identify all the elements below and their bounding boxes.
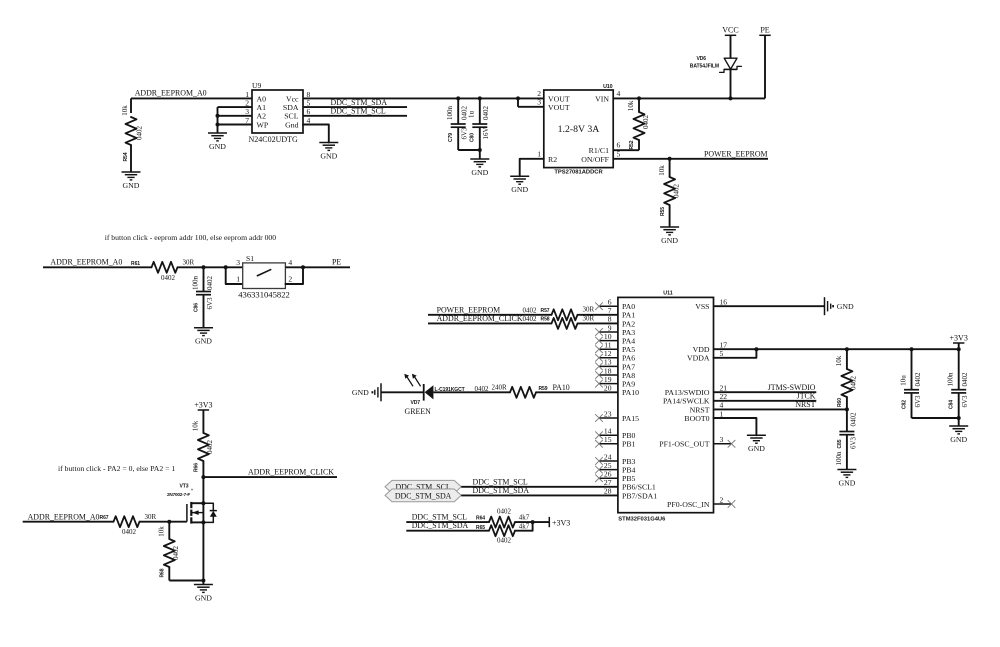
svg-text:WP: WP xyxy=(257,120,269,129)
sideways ground at VSS xyxy=(824,297,826,315)
svg-text:A2: A2 xyxy=(257,112,267,121)
resistor R68 10k 0402 gate pulldown xyxy=(168,522,170,539)
svg-text:GND: GND xyxy=(838,478,855,487)
wire ADDR_EEPROM_CLICK xyxy=(203,476,337,478)
wire flag to PB7 xyxy=(461,494,618,496)
svg-text:0402: 0402 xyxy=(172,546,180,561)
svg-text:C80: C80 xyxy=(470,133,476,142)
svg-text:S1: S1 xyxy=(246,254,254,263)
resistor R65 4k7 0402 xyxy=(489,525,515,536)
wire VDDA join xyxy=(714,349,757,358)
wire PE down to VIN rail xyxy=(764,35,766,98)
svg-text:2: 2 xyxy=(245,99,249,108)
svg-text:U9: U9 xyxy=(252,81,261,90)
svg-text:20: 20 xyxy=(604,384,612,393)
svg-text:PB1: PB1 xyxy=(622,440,636,449)
button S1 436331045822 box xyxy=(243,263,286,289)
wire PA14/SWCLK xyxy=(714,400,817,402)
resistor R55 10k 0402 pulldown xyxy=(669,159,671,177)
junction C84 top at +3V3 xyxy=(957,347,961,351)
svg-text:4k7: 4k7 xyxy=(519,514,530,522)
svg-text:2: 2 xyxy=(288,275,292,284)
svg-text:0402: 0402 xyxy=(497,508,512,516)
svg-text:6V3: 6V3 xyxy=(206,297,214,310)
svg-text:0402: 0402 xyxy=(122,528,137,536)
svg-text:0402: 0402 xyxy=(850,376,858,391)
box: MCU U11 STM32F031G4U6 xyxy=(618,297,714,512)
svg-text:GND: GND xyxy=(837,302,854,311)
svg-text:R55: R55 xyxy=(660,207,666,216)
svg-text:SCL: SCL xyxy=(284,112,299,121)
ground below C84 xyxy=(949,425,968,427)
junction C84 bottom xyxy=(957,416,961,420)
wire VDD rail to +3V3 xyxy=(714,348,959,350)
junction at S1 pin1 branch xyxy=(224,265,228,269)
svg-text:+3V3: +3V3 xyxy=(194,400,212,409)
svg-text:R61: R61 xyxy=(131,261,140,267)
svg-text:VSS: VSS xyxy=(695,302,709,311)
svg-text:Gnd: Gnd xyxy=(285,120,299,129)
power port VCC xyxy=(725,34,736,36)
svg-text:30R: 30R xyxy=(183,259,195,267)
power port PE (top right) xyxy=(759,34,770,36)
junction at R55 pulldown xyxy=(668,157,672,161)
svg-text:R64: R64 xyxy=(476,515,485,521)
svg-text:PB7/SDA1: PB7/SDA1 xyxy=(622,491,657,500)
svg-text:10k: 10k xyxy=(627,100,635,111)
resistor R60 10k 0402 NRST pullup xyxy=(846,349,848,369)
svg-text:DDC_STM_SDA: DDC_STM_SDA xyxy=(331,98,388,107)
svg-text:C82: C82 xyxy=(901,400,907,409)
resistor R66 10k 0402 pullup xyxy=(198,433,209,461)
svg-text:BOOT0: BOOT0 xyxy=(684,414,709,423)
wire R68 bottom to source node xyxy=(169,580,203,582)
svg-text:TPS27081ADDCR: TPS27081ADDCR xyxy=(554,169,603,175)
wire SDA into R65 xyxy=(406,530,489,532)
wire net ADDR_EEPROM_A0 to U9 pin 1 xyxy=(131,97,252,99)
svg-text:0402: 0402 xyxy=(914,372,922,387)
capacitor C84 100n 6V3 0402 xyxy=(958,349,960,390)
svg-text:R68: R68 xyxy=(160,568,166,577)
capacitor C80 1u 16V 0402 xyxy=(478,96,482,100)
svg-text:0402: 0402 xyxy=(523,315,538,323)
svg-text:GND: GND xyxy=(661,236,678,245)
svg-text:C86: C86 xyxy=(193,303,199,312)
ground below U9 address pins xyxy=(208,132,227,134)
wire U9 pins 2,3,7 to ground bus xyxy=(218,106,253,108)
svg-text:100n: 100n xyxy=(947,372,955,387)
svg-text:R59: R59 xyxy=(539,386,548,392)
svg-text:BAT54JFILM: BAT54JFILM xyxy=(690,63,719,69)
svg-text:GND: GND xyxy=(320,151,337,160)
capacitor C82 10u 6V3 0402 xyxy=(911,349,913,390)
S1 lever xyxy=(257,269,272,276)
wire R58 to PA2 xyxy=(578,322,618,324)
svg-text:GND: GND xyxy=(471,168,488,177)
svg-text:0402: 0402 xyxy=(482,106,490,121)
ground below C80 xyxy=(470,158,489,160)
wire S1 pin 2 branch xyxy=(285,267,303,284)
svg-text:PF1-OSC_OUT: PF1-OSC_OUT xyxy=(659,440,709,449)
wire S1 pin 4 to PE xyxy=(285,266,350,268)
svg-text:NRST: NRST xyxy=(795,400,815,409)
svg-text:A1: A1 xyxy=(257,103,267,112)
svg-text:+3V3: +3V3 xyxy=(950,333,968,342)
svg-text:PA10: PA10 xyxy=(622,388,639,397)
schottky diode VD6 BAT54JFILM xyxy=(724,58,737,69)
op-amp style box: EEPROM U9 N24C02UDTG xyxy=(252,90,303,133)
svg-text:4k7: 4k7 xyxy=(519,522,530,530)
svg-text:100n: 100n xyxy=(835,451,843,466)
svg-text:0402: 0402 xyxy=(961,372,969,387)
svg-text:6: 6 xyxy=(617,141,621,150)
svg-text:R60: R60 xyxy=(837,398,843,407)
svg-text:C79: C79 xyxy=(448,133,454,142)
svg-text:16V: 16V xyxy=(482,127,490,139)
svg-text:1: 1 xyxy=(245,90,249,99)
wire U9 Vcc (pin 8) to U10 VOUT rail xyxy=(303,97,544,99)
svg-text:PE: PE xyxy=(760,26,769,35)
svg-text:6: 6 xyxy=(307,107,311,116)
junction VOUT pins xyxy=(516,96,520,100)
svg-text:C84: C84 xyxy=(949,400,955,409)
resistor R61 30R 0402 xyxy=(152,262,178,273)
junction pullup rail xyxy=(531,520,535,524)
svg-text:30R: 30R xyxy=(145,513,157,521)
svg-text:GND: GND xyxy=(195,337,212,346)
ground below BOOT0 xyxy=(747,434,766,436)
svg-text:1: 1 xyxy=(236,275,240,284)
wire DDC_STM_SDA xyxy=(303,106,407,108)
svg-text:GND: GND xyxy=(748,444,765,453)
svg-text:U10: U10 xyxy=(603,84,613,90)
svg-text:VIN: VIN xyxy=(595,95,609,104)
svg-text:PE: PE xyxy=(332,258,341,267)
svg-text:10k: 10k xyxy=(835,355,843,366)
svg-text:R65: R65 xyxy=(476,525,485,531)
port flag DDC_STM_SCL xyxy=(385,480,461,493)
svg-text:R58: R58 xyxy=(541,317,550,323)
svg-text:A0: A0 xyxy=(257,94,267,103)
power port +3V3 above R66 xyxy=(198,409,209,411)
wire PA13/SWDIO xyxy=(714,391,817,393)
wire U10 R2 pin 1 to ground xyxy=(520,159,544,177)
svg-text:GND: GND xyxy=(195,593,212,602)
svg-text:ADDR_EEPROM_A0: ADDR_EEPROM_A0 xyxy=(28,512,100,521)
wire R57 to PA1 xyxy=(578,314,618,316)
svg-text:GND: GND xyxy=(511,185,528,194)
svg-text:1.2-8V 3A: 1.2-8V 3A xyxy=(558,124,600,135)
ground below C86 xyxy=(194,327,213,329)
svg-text:ON/OFF: ON/OFF xyxy=(581,155,609,164)
junction on WP row xyxy=(216,123,220,127)
svg-text:2N7002-7-F: 2N7002-7-F xyxy=(167,492,190,497)
wire S1 pin 1 branch xyxy=(226,267,243,284)
svg-text:10k: 10k xyxy=(121,105,129,116)
svg-text:0402: 0402 xyxy=(161,274,176,282)
svg-text:0402: 0402 xyxy=(206,276,214,291)
junction C82 top xyxy=(910,347,914,351)
svg-text:240R: 240R xyxy=(492,384,508,392)
junction R66/drain xyxy=(201,475,205,479)
resistor R52 10k 0402 xyxy=(638,98,640,112)
LED VD7 L-C191KGCT GREEN xyxy=(423,384,425,401)
svg-text:0402: 0402 xyxy=(475,385,490,393)
junction at R68 bottom xyxy=(201,579,205,583)
wire R59 to U11 PA10 xyxy=(536,391,618,393)
wire U10 VOUT pin 3 loop xyxy=(517,98,519,106)
port flag DDC_STM_SDA xyxy=(385,489,461,502)
junction at C86 xyxy=(202,265,206,269)
svg-text:PA15: PA15 xyxy=(622,414,639,423)
resistor R57 30R 0402 xyxy=(552,309,578,320)
svg-text:10u: 10u xyxy=(899,375,907,386)
wire U9 Gnd (pin 4) to ground xyxy=(303,125,329,143)
svg-text:+3V3: +3V3 xyxy=(552,518,570,527)
svg-text:if button click - PA2 = 0, els: if button click - PA2 = 0, else PA2 = 1 xyxy=(58,464,175,473)
wire ground to LED cathode xyxy=(381,391,424,393)
svg-text:23: 23 xyxy=(604,409,612,418)
wire BOOT0 to ground xyxy=(714,418,757,435)
svg-text:VD6: VD6 xyxy=(696,56,706,62)
svg-text:6V3: 6V3 xyxy=(914,395,922,408)
LED light arrows xyxy=(406,375,413,386)
svg-text:DDC_STM_SDA: DDC_STM_SDA xyxy=(412,521,469,530)
junction NRST xyxy=(845,407,849,411)
svg-text:1u: 1u xyxy=(468,111,476,119)
wire SCL into R64 xyxy=(406,521,489,523)
svg-text:if button click - eeprom addr: if button click - eeprom addr 100, else … xyxy=(105,233,277,242)
svg-text:R67: R67 xyxy=(100,515,109,521)
svg-text:ADDR_EEPROM_A0: ADDR_EEPROM_A0 xyxy=(135,89,207,98)
wire VSS to ground xyxy=(714,305,825,307)
svg-text:R54: R54 xyxy=(123,152,129,161)
svg-text:N24C02UDTG: N24C02UDTG xyxy=(249,135,299,144)
svg-text:R66: R66 xyxy=(194,463,200,472)
power port +3V3 (horizontal) xyxy=(548,517,550,527)
resistor R59 240R 0402 xyxy=(510,387,536,398)
resistor R67 30R 0402 gate series xyxy=(114,516,140,527)
capacitor C86 100n 6V3 0402 xyxy=(203,267,205,291)
svg-text:28: 28 xyxy=(604,487,612,496)
ground below U9 pin 4 xyxy=(319,142,338,144)
svg-text:VT3: VT3 xyxy=(180,484,189,490)
svg-text:0402: 0402 xyxy=(642,115,650,130)
wire R67 to gate xyxy=(140,521,187,523)
svg-text:GND: GND xyxy=(123,181,140,190)
junction at R68 xyxy=(167,520,171,524)
svg-text:C85: C85 xyxy=(837,439,843,448)
junction VDDA xyxy=(754,347,758,351)
svg-text:10k: 10k xyxy=(158,526,166,537)
wire R65 up to junction xyxy=(515,522,533,531)
svg-text:436331045822: 436331045822 xyxy=(238,289,290,299)
wire flag to PB6 xyxy=(461,486,618,488)
junction R60 top xyxy=(845,347,849,351)
svg-text:ADDR_EEPROM_A0: ADDR_EEPROM_A0 xyxy=(50,258,122,267)
ground below VT3 source xyxy=(194,584,213,586)
svg-text:R57: R57 xyxy=(541,308,550,314)
svg-text:POWER_EEPROM: POWER_EEPROM xyxy=(704,149,768,158)
svg-text:VDDA: VDDA xyxy=(687,354,710,363)
svg-text:3: 3 xyxy=(537,97,541,106)
ground below C85 xyxy=(837,469,856,471)
junction at R52 xyxy=(637,96,641,100)
svg-text:SDA: SDA xyxy=(283,103,299,112)
svg-text:PA10: PA10 xyxy=(553,383,570,392)
wire POWER_EEPROM into R57 xyxy=(428,314,552,316)
ground below R54 xyxy=(122,171,141,173)
svg-text:VCC: VCC xyxy=(722,26,738,35)
junction VD6 anode on VIN rail xyxy=(729,96,733,100)
svg-text:2: 2 xyxy=(720,495,724,504)
wire down to resistor R54 xyxy=(130,98,132,113)
junction on A2 row xyxy=(216,114,220,118)
capacitor C85 100n 6V3 0402 on NRST xyxy=(846,409,848,431)
svg-text:ADDR_EEPROM_CLICK: ADDR_EEPROM_CLICK xyxy=(437,314,523,323)
svg-text:0402: 0402 xyxy=(206,440,214,455)
svg-text:30R: 30R xyxy=(583,314,595,322)
wire R64 to +3V3 bar xyxy=(515,521,549,523)
junction S1 outputs xyxy=(301,265,305,269)
sideways ground left of LED xyxy=(380,383,382,401)
svg-text:*: * xyxy=(191,489,193,495)
transistor VT3 2N7002-7-F NMOS xyxy=(186,504,188,522)
svg-text:0402: 0402 xyxy=(672,184,680,199)
svg-text:DDC_STM_SDA: DDC_STM_SDA xyxy=(395,491,452,500)
svg-text:16: 16 xyxy=(720,298,728,307)
capacitor C79 100n 6V3 0402 xyxy=(456,96,460,100)
svg-text:GND: GND xyxy=(209,142,226,151)
body diode of VT3 xyxy=(203,503,213,510)
junction source xyxy=(201,520,205,524)
svg-text:100n: 100n xyxy=(191,276,199,291)
svg-text:0402: 0402 xyxy=(523,307,538,315)
junction drain xyxy=(201,501,205,505)
svg-text:100n: 100n xyxy=(446,106,454,121)
wire DDC_STM_SCL xyxy=(303,115,407,117)
wire into R61 xyxy=(43,266,152,268)
wire LED anode to R59 xyxy=(433,391,510,393)
svg-text:6V3: 6V3 xyxy=(961,395,969,408)
wire R61 to S1 pin 3 xyxy=(178,266,243,268)
ground below R55 xyxy=(660,226,679,228)
svg-text:VD7: VD7 xyxy=(410,400,420,406)
svg-text:DDC_STM_SDA: DDC_STM_SDA xyxy=(473,486,530,495)
svg-text:Vcc: Vcc xyxy=(286,94,299,103)
ground below R2 xyxy=(510,175,529,177)
resistor R64 4k7 0402 xyxy=(489,517,515,528)
svg-text:10k: 10k xyxy=(192,420,200,431)
svg-text:0402: 0402 xyxy=(136,126,144,141)
svg-text:R2: R2 xyxy=(548,155,557,164)
svg-text:4: 4 xyxy=(617,89,621,98)
svg-text:0402: 0402 xyxy=(850,412,858,427)
wire U10 VIN rail to VCC/PE xyxy=(613,97,765,99)
VT3 vertical drain-source wire xyxy=(202,477,204,584)
resistor R58 30R 0402 xyxy=(552,318,578,329)
svg-text:4: 4 xyxy=(288,258,292,267)
svg-text:R52: R52 xyxy=(629,140,635,149)
wire U10 ON/OFF pin 5 - net POWER_EEPROM xyxy=(613,158,768,160)
svg-text:GREEN: GREEN xyxy=(405,407,432,416)
svg-text:7: 7 xyxy=(245,116,249,125)
svg-text:GND: GND xyxy=(950,435,967,444)
power port +3V3 (right) xyxy=(958,343,960,349)
svg-text:DDC_STM_SCL: DDC_STM_SCL xyxy=(331,107,386,116)
svg-text:15: 15 xyxy=(604,435,612,444)
resistor R54 10k 0402 pulldown xyxy=(126,117,137,145)
svg-text:GND: GND xyxy=(352,388,369,397)
svg-text:ADDR_EEPROM_CLICK: ADDR_EEPROM_CLICK xyxy=(248,468,334,477)
wire into R67 xyxy=(23,521,114,523)
box: load switch U10 TPS27081ADDCR xyxy=(544,90,613,168)
svg-text:6V3: 6V3 xyxy=(850,436,858,449)
svg-text:3: 3 xyxy=(720,435,724,444)
svg-text:5: 5 xyxy=(720,349,724,358)
svg-text:10k: 10k xyxy=(658,165,666,176)
svg-text:30R: 30R xyxy=(583,306,595,314)
svg-text:1: 1 xyxy=(537,149,541,158)
svg-text:U11: U11 xyxy=(663,291,672,297)
wire ADDR_EEPROM_CLICK into R58 xyxy=(428,322,552,324)
wire NRST to R60/C85 xyxy=(714,408,847,410)
svg-text:6V3: 6V3 xyxy=(461,127,469,140)
svg-text:3: 3 xyxy=(245,107,249,116)
svg-text:VOUT: VOUT xyxy=(548,103,570,112)
svg-text:1: 1 xyxy=(720,409,724,418)
svg-text:0402: 0402 xyxy=(497,537,512,545)
svg-text:STM32F031G4U6: STM32F031G4U6 xyxy=(618,517,666,523)
svg-text:PF0-OSC_IN: PF0-OSC_IN xyxy=(667,500,710,509)
svg-text:3: 3 xyxy=(236,258,240,267)
